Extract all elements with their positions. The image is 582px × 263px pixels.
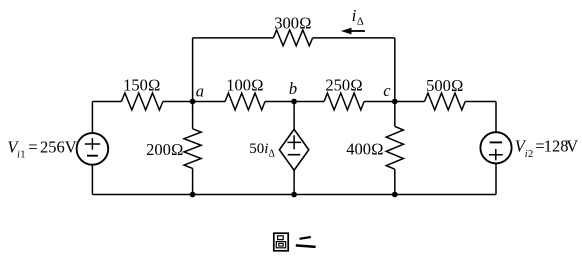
caption glyph TU (figure) outer box bbox=[274, 233, 288, 251]
wire a to top bbox=[192, 38, 194, 102]
svg-text:200Ω: 200Ω bbox=[146, 140, 183, 159]
node c junction bbox=[392, 99, 398, 105]
svg-text:300Ω: 300Ω bbox=[274, 13, 311, 32]
caption glyph TU inner bottom box bbox=[276, 242, 285, 248]
svg-text:V: V bbox=[65, 137, 77, 156]
dependent source plus sign bbox=[287, 135, 301, 149]
wire a to 200ohm bbox=[192, 102, 194, 129]
wire 400ohm to bottom bbox=[394, 169, 396, 194]
wire right branch lower bbox=[495, 163, 497, 194]
wire middle bus left segment bbox=[92, 101, 121, 103]
wire middle bus b segment bbox=[265, 101, 324, 103]
wire middle bus a segment bbox=[163, 101, 225, 103]
wire middle bus c segment bbox=[364, 101, 424, 103]
dependent source 50i_delta diamond bbox=[279, 129, 308, 170]
dependent source minus sign bbox=[288, 154, 301, 156]
node a junction bbox=[190, 99, 196, 105]
V_i1 plus sign bbox=[85, 138, 100, 150]
resistor R 150ohm bbox=[121, 93, 162, 110]
svg-text:b: b bbox=[289, 79, 297, 98]
caption glyph TU inner top small box bbox=[278, 236, 284, 240]
svg-text:128: 128 bbox=[544, 137, 569, 156]
svg-text:a: a bbox=[196, 82, 204, 101]
node b junction bbox=[291, 99, 297, 105]
V_i2 plus sign bbox=[489, 149, 503, 160]
wire top left segment bbox=[193, 37, 274, 39]
svg-text:2: 2 bbox=[528, 149, 533, 160]
svg-text:c: c bbox=[383, 81, 391, 100]
caption glyph TU inner bottom center bbox=[279, 243, 283, 246]
wire left branch lower bbox=[91, 165, 93, 195]
resistor R 200ohm vertical bbox=[184, 129, 201, 169]
wire top right segment bbox=[313, 37, 395, 39]
wire c to 400ohm bbox=[394, 102, 396, 127]
resistor R 400ohm vertical bbox=[386, 126, 403, 169]
svg-text:Δ: Δ bbox=[357, 15, 364, 27]
voltage source V_i2 circle bbox=[480, 132, 511, 163]
svg-text:500Ω: 500Ω bbox=[426, 76, 463, 95]
svg-text:250Ω: 250Ω bbox=[325, 75, 362, 94]
current arrow i_delta bbox=[350, 30, 365, 32]
wire left branch upper bbox=[91, 102, 93, 134]
svg-text:=: = bbox=[28, 137, 37, 156]
svg-text:1: 1 bbox=[20, 150, 25, 161]
wire c to top bbox=[394, 38, 396, 102]
wire middle bus right segment bbox=[465, 101, 496, 103]
svg-text:400Ω: 400Ω bbox=[346, 139, 383, 158]
wire diamond to bottom bbox=[293, 170, 295, 194]
svg-text:256: 256 bbox=[40, 137, 65, 156]
V_i2 minus sign bbox=[490, 141, 502, 143]
svg-text:100Ω: 100Ω bbox=[226, 75, 263, 94]
svg-text:150Ω: 150Ω bbox=[123, 75, 160, 94]
bottom junction under c bbox=[392, 192, 398, 198]
wire right branch upper bbox=[495, 102, 497, 133]
bottom junction under b bbox=[291, 192, 297, 198]
voltage source V_i1 circle bbox=[77, 133, 109, 165]
wire 200ohm to bottom bbox=[192, 168, 194, 194]
resistor R 300ohm bbox=[273, 30, 312, 46]
svg-text:50iΔ: 50iΔ bbox=[249, 141, 275, 159]
resistor R 500ohm bbox=[425, 93, 466, 110]
svg-text:V: V bbox=[566, 137, 578, 156]
V_i1 minus sign bbox=[87, 155, 98, 157]
resistor R 250ohm bbox=[324, 93, 364, 110]
wire b to diamond bbox=[293, 102, 295, 130]
resistor R 100ohm bbox=[225, 93, 265, 110]
caption glyph ER (two) top stroke bbox=[300, 237, 311, 239]
wire bottom bus bbox=[92, 194, 496, 196]
caption glyph ER (two) bottom stroke bbox=[296, 245, 316, 247]
bottom junction under a bbox=[190, 192, 196, 198]
